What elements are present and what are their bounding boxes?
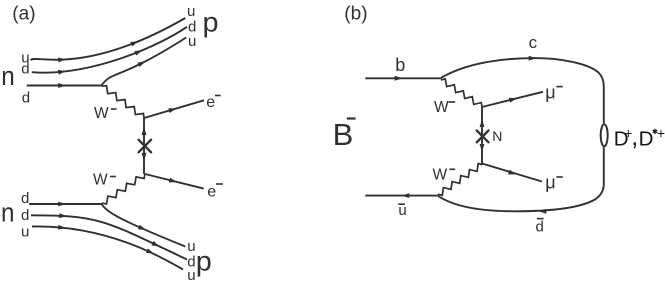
b quark line (b, top-left) bbox=[365, 77, 440, 79]
svg-text:p: p bbox=[203, 6, 219, 37]
svg-text:u: u bbox=[187, 3, 195, 20]
W- boson wavy (b, top) bbox=[442, 79, 483, 107]
svg-text:d: d bbox=[21, 61, 29, 78]
hadronization blob (ellipse) bbox=[601, 124, 608, 146]
svg-text:D: D bbox=[639, 127, 654, 150]
svg-text:e: e bbox=[206, 94, 215, 111]
svg-text:p: p bbox=[196, 245, 212, 276]
electron line e- (a, bottom) bbox=[145, 174, 204, 189]
electron line e- (a, top) bbox=[144, 100, 204, 118]
svg-text:(a): (a) bbox=[12, 3, 35, 24]
W- boson wavy (b, bottom) bbox=[439, 164, 483, 196]
W- boson wavy (a, bottom) bbox=[103, 175, 145, 205]
mass insertion x (a) bbox=[139, 140, 152, 153]
d->u quark line top (horizontal + diagonal) bbox=[27, 38, 187, 86]
svg-text:W: W bbox=[93, 172, 108, 189]
svg-text:u: u bbox=[187, 238, 195, 255]
svg-text:n: n bbox=[1, 197, 15, 227]
d quark line bottom (curved) bbox=[31, 215, 187, 259]
W- boson wavy (a, top) bbox=[103, 86, 145, 118]
svg-text:W: W bbox=[94, 105, 109, 122]
Majorana neutrino propagator N (vertical, b) bbox=[481, 107, 483, 164]
svg-text:n: n bbox=[1, 61, 15, 91]
svg-text:u: u bbox=[21, 224, 29, 241]
svg-text:N: N bbox=[492, 128, 502, 144]
u quark line top (curved) bbox=[31, 18, 186, 60]
svg-text:u: u bbox=[188, 33, 196, 50]
u quark line bottom (curved) bbox=[32, 226, 183, 269]
svg-text:W: W bbox=[434, 99, 449, 116]
svg-text:d: d bbox=[21, 190, 29, 207]
mass insertion x (b) bbox=[477, 131, 489, 143]
d quark line top (curved) bbox=[32, 27, 187, 73]
svg-text:(b): (b) bbox=[344, 3, 367, 24]
svg-text:d: d bbox=[22, 90, 30, 107]
svg-text:u: u bbox=[187, 267, 195, 283]
svg-text:μ: μ bbox=[545, 172, 555, 192]
svg-text:c: c bbox=[529, 33, 538, 52]
svg-text:W: W bbox=[433, 167, 448, 184]
svg-text:μ: μ bbox=[545, 83, 555, 103]
muon line (b, bottom) bbox=[482, 164, 542, 182]
ubar quark line (b, bottom-left) bbox=[365, 195, 437, 197]
c quark loop (top curve) bbox=[440, 58, 603, 123]
svg-text:d: d bbox=[21, 207, 29, 224]
dbar quark loop (bottom curve) bbox=[438, 147, 604, 211]
svg-text:,: , bbox=[631, 123, 638, 151]
d->u quark line bottom (horizontal + diagonal) bbox=[29, 204, 185, 247]
svg-text:e: e bbox=[207, 184, 216, 201]
muon line (b, top) bbox=[482, 92, 543, 107]
svg-text:d: d bbox=[536, 218, 544, 235]
svg-text:b: b bbox=[395, 55, 405, 75]
svg-text:B: B bbox=[333, 117, 354, 152]
Majorana neutrino propagator (vertical, a) bbox=[143, 118, 145, 174]
svg-text:+: + bbox=[657, 125, 665, 141]
